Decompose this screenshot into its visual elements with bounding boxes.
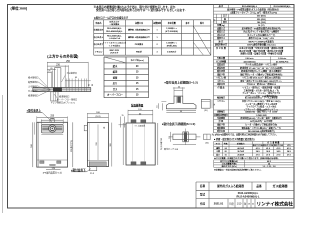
svg-text:36.7kW: 36.7kW (237, 151, 244, 153)
svg-text:41.9: 41.9 (277, 147, 281, 150)
svg-text:RUJ-A2400W(A)-L: RUJ-A2400W(A)-L (274, 5, 292, 8)
svg-text:都市ガス6A: 都市ガス6A (273, 144, 284, 147)
svg-text:MBC-155V: MBC-155V (110, 50, 120, 52)
svg-text:2: 2 (157, 44, 158, 46)
svg-text:41.9: 41.9 (287, 147, 291, 150)
svg-text:品番: 品番 (256, 184, 262, 188)
svg-text:2021.01: 2021.01 (214, 202, 224, 206)
svg-text:リンナイ株式会社: リンナイ株式会社 (257, 200, 294, 207)
svg-text:20: 20 (225, 151, 227, 153)
svg-text:発売済へはお知らせ内容の記れらかのサポート受付済みです もき: 発売済へはお知らせ内容の記れらかのサポート受付済みです もきしくはおす. (94, 8, 186, 12)
svg-text:RUJ-A2400(A)-L: RUJ-A2400(A)-L (107, 27, 122, 30)
svg-text:29.4kW: 29.4kW (237, 153, 244, 156)
svg-text:310: 310 (96, 142, 98, 145)
svg-text:40: 40 (180, 111, 182, 113)
svg-text:都市ガス13A: 都市ガス13A (252, 144, 264, 147)
svg-text:(35): (35) (205, 142, 209, 144)
svg-text:ガス給湯器: ガス給湯器 (272, 183, 288, 188)
svg-text:44.1kW: 44.1kW (237, 147, 244, 150)
svg-text:1.0・1.33・2.8: 1.0・1.33・2.8 (262, 165, 276, 168)
svg-text:80: 80 (92, 84, 94, 86)
svg-text:3: 3 (157, 51, 158, 53)
svg-text:RUJ-A2400(A)-L: RUJ-A2400(A)-L (242, 5, 258, 8)
svg-text:41.9: 41.9 (266, 147, 270, 150)
svg-text:●取付金具下詳細図(S=1:2): ●取付金具下詳細図(S=1:2) (162, 122, 196, 126)
svg-text:●取付金具上詳細図(S=1:2): ●取付金具上詳細図(S=1:2) (164, 80, 198, 84)
svg-text:RUJ-A2401(A)-L: RUJ-A2401(A)-L (107, 34, 122, 37)
svg-text:RUJ-A2400W(A)-L: RUJ-A2400W(A)-L (106, 30, 123, 33)
svg-text:(上方からの外形図): (上方からの外形図) (47, 54, 79, 59)
svg-text:(161): (161) (96, 116, 101, 118)
svg-text:都市ガス12A: 都市ガス12A (262, 144, 274, 147)
svg-text:型式: 型式 (200, 193, 206, 197)
svg-text:34.9: 34.9 (277, 150, 281, 153)
svg-text:27.9: 27.9 (287, 154, 291, 156)
svg-text:1/10: 1/10 (237, 204, 242, 206)
svg-text:15: 15 (157, 105, 159, 107)
svg-text:(単位:mm): (単位:mm) (11, 5, 28, 10)
svg-text:34.9: 34.9 (256, 150, 260, 153)
svg-text:作成: 作成 (200, 202, 206, 206)
svg-text:16: 16 (225, 154, 227, 156)
svg-text:15: 15 (121, 115, 123, 117)
svg-text:27.9: 27.9 (266, 154, 270, 156)
svg-text:屋外用ガスふろ給湯器: 屋外用ガスふろ給湯器 (216, 184, 244, 188)
svg-text:(35): (35) (204, 110, 208, 112)
svg-text:41.9: 41.9 (256, 147, 260, 150)
svg-text:65: 65 (89, 84, 91, 86)
svg-text:※本表示の据置(取付板)および寸法は、取り付け状態を示します: ※本表示の据置(取付板)および寸法は、取り付け状態を示します。ほか (94, 5, 176, 9)
svg-text:RUJ-A2400W(A)-L: RUJ-A2400W(A)-L (237, 195, 260, 199)
svg-text:15: 15 (169, 136, 171, 138)
svg-text:RUJ-A2400(A)-L: RUJ-A2400(A)-L (238, 191, 259, 195)
svg-text:360: 360 (110, 143, 112, 146)
svg-text:27.9: 27.9 (256, 154, 260, 156)
svg-text:●取付金具下: ●取付金具下 (71, 168, 86, 172)
svg-text:34.9: 34.9 (266, 150, 270, 153)
svg-text:●取付金具上: ●取付金具上 (27, 109, 42, 113)
svg-text:背面基準図: 背面基準図 (131, 103, 144, 107)
svg-text:34.9: 34.9 (287, 150, 291, 153)
svg-text:27.9: 27.9 (277, 154, 281, 156)
svg-text:名称: 名称 (200, 184, 206, 188)
